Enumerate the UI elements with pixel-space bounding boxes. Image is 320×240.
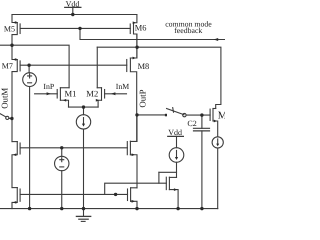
svg-text:Vdd: Vdd xyxy=(66,0,80,9)
svg-text:M7: M7 xyxy=(2,61,13,70)
svg-text:Vdd: Vdd xyxy=(168,128,182,137)
svg-text:feedback: feedback xyxy=(174,26,202,35)
svg-text:OutP: OutP xyxy=(138,89,148,107)
svg-text:M2: M2 xyxy=(86,89,98,99)
svg-text:M6: M6 xyxy=(135,24,147,33)
svg-text:C2: C2 xyxy=(187,119,196,128)
svg-text:M5: M5 xyxy=(4,24,15,33)
svg-text:InP: InP xyxy=(43,82,54,91)
svg-text:M: M xyxy=(218,110,225,121)
svg-text:OutM: OutM xyxy=(0,88,10,109)
svg-text:M1: M1 xyxy=(65,89,77,99)
svg-text:M8: M8 xyxy=(138,62,150,71)
svg-text:InM: InM xyxy=(116,82,129,91)
